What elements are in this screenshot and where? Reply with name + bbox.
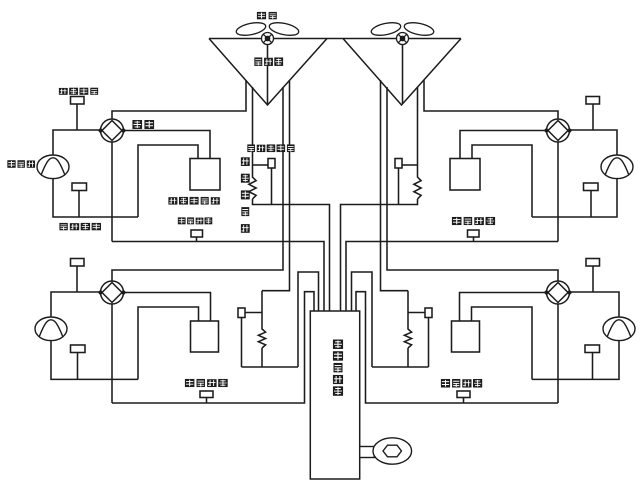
label: condenser label 冷凝器 xyxy=(254,57,283,65)
wire: heater A' to heat exchanger xyxy=(341,199,418,311)
wire: valve A bottom line xyxy=(111,142,113,242)
auxiliary electric heater A (zigzag) xyxy=(249,171,256,199)
wire: LP switch A stub xyxy=(78,191,80,218)
wire: heater B' to outer bridge xyxy=(372,348,429,367)
label: high-pressure-switch label 高压开关 xyxy=(59,88,98,95)
wire: valve A top port to left condenser xyxy=(112,80,246,119)
wire: valve B bottom line xyxy=(111,304,113,403)
wire: outer bridge to heat exchanger xyxy=(298,272,319,367)
label: electronic-expansion-valve label 电子膨胀阀 xyxy=(247,144,294,152)
wire: valve B' top port riser xyxy=(387,87,558,281)
compressor B (compressor: ellipse with inner bell) xyxy=(35,317,67,341)
wire: compressor A discharge to valve A xyxy=(53,130,101,156)
high pressure switch A' xyxy=(586,97,600,105)
wire: expansion valve A link xyxy=(253,164,269,166)
wire: heater B to outer bridge xyxy=(242,348,299,367)
compressor A (compressor: ellipse with inner bell) xyxy=(37,155,69,179)
four-way valve B (4-way reversing valve: circle with inscribed diamond) xyxy=(98,281,125,304)
four-way valve A' (4-way reversing valve: circle with inscribed diamond) xyxy=(544,119,571,142)
fan (left) (axial fan: two blades + hub) xyxy=(235,20,300,44)
wire: outer bridge to heat exchanger (right) xyxy=(352,272,373,367)
electronic expansion valve B' xyxy=(425,308,432,318)
wire: separator A' second port to suction line xyxy=(472,145,532,217)
wire: valve B right port to separator B xyxy=(124,293,211,322)
wire: expansion valve B link xyxy=(245,312,262,314)
fan shaft right xyxy=(402,44,404,104)
wire: circuit A' bottom line to heat exchanger xyxy=(346,242,558,312)
wire: expansion valve A' outlet xyxy=(398,168,400,205)
label: four-way-valve label 阀 xyxy=(132,120,154,129)
wire: LP switch B' stub xyxy=(592,353,594,380)
label: pressure-switch label (bottom-left) 压力开关 xyxy=(185,379,228,387)
wire: compressor A' discharge to valve A' xyxy=(569,130,617,156)
wire: circuit B' condenser liquid line xyxy=(407,291,409,323)
low pressure switch A xyxy=(72,183,87,191)
condenser top line xyxy=(209,38,461,40)
compressor A' (compressor: ellipse with inner bell) xyxy=(601,155,633,179)
label: pressure-switch label (top-right) 压力开关 xyxy=(452,217,495,225)
gas-liquid separator B xyxy=(191,321,219,352)
wire: separator B' second port to suction line xyxy=(472,307,533,379)
pressure switch B xyxy=(200,391,213,398)
wire: valve A' left port to separator A' xyxy=(460,131,547,159)
gas-liquid separator A xyxy=(190,159,220,191)
auxiliary electric heater B (zigzag) xyxy=(258,323,265,348)
auxiliary electric heater B' (zigzag) xyxy=(404,323,411,348)
wire: right condenser to circuit B' heater (long drop) xyxy=(381,80,409,291)
wire: valve A' bottom line xyxy=(557,142,559,242)
water pump (ellipse with hexagon) xyxy=(373,438,412,464)
wire: suction line B (compressor bottom) xyxy=(51,340,138,379)
water pump duct stub xyxy=(360,447,375,458)
wire: HP switch A stub xyxy=(76,104,78,130)
wire: suction line A' xyxy=(532,178,617,217)
water-side plate heat exchanger xyxy=(310,311,359,479)
four-way valve A (4-way reversing valve: circle with inscribed diamond) xyxy=(98,119,125,142)
wire: circuit B' bottom line to heat exchanger (inner bridge) xyxy=(356,292,558,403)
label: pressure-switch label (bottom-right) 压力开关 xyxy=(441,379,482,388)
gas-liquid separator B' xyxy=(452,321,480,352)
wire: expansion valve B outlet xyxy=(241,318,243,368)
wire: circuit A bottom line to heat exchanger xyxy=(112,242,324,312)
wire: pressure switch B stub xyxy=(206,398,208,404)
wire: valve B' bottom line xyxy=(557,304,559,403)
wire: pressure switch B' stub xyxy=(463,398,465,404)
wire: suction line B' xyxy=(532,340,619,379)
wire: expansion valve B' outlet xyxy=(428,318,430,368)
low pressure switch B xyxy=(71,345,86,353)
wire: pressure switch A' stub xyxy=(473,237,475,242)
pressure switch B1 xyxy=(71,259,85,267)
label: low-pressure-switch label 低压开关 xyxy=(59,223,101,230)
wire: condenser A' liquid line xyxy=(417,87,419,171)
wire: expansion valve A' link xyxy=(402,164,418,166)
wire: separator B second port to suction line xyxy=(138,307,199,379)
wire: LP switch A' stub xyxy=(590,191,592,218)
label: fan label 风机 xyxy=(257,12,277,19)
low pressure switch A' xyxy=(584,183,599,191)
wire: valve A' top port to right condenser xyxy=(424,80,558,119)
wire: LP switch B stub xyxy=(77,353,79,380)
wire: condenser A liquid line xyxy=(252,87,254,171)
four-way valve B' (4-way reversing valve: circle with inscribed diamond) xyxy=(544,281,571,304)
pressure switch A xyxy=(191,230,203,237)
wire: heater A to heat exchanger xyxy=(253,199,330,311)
compressor B' (compressor: ellipse with inner bell) xyxy=(603,317,635,341)
label: aux-heater vertical label 辅助电加热 xyxy=(241,157,250,233)
wire: expansion valve B' link xyxy=(408,312,425,314)
gas-liquid separator A' xyxy=(450,159,480,191)
wire: switch B1 stub xyxy=(76,266,78,292)
fan (right) (axial fan: two blades + hub) xyxy=(370,20,435,44)
condenser (left triangle) xyxy=(209,39,327,106)
label: compressor label 压缩机 xyxy=(7,160,35,168)
wire: HP switch A' stub xyxy=(592,104,594,130)
wire: expansion valve A outlet xyxy=(271,168,273,205)
auxiliary electric heater A' (zigzag) xyxy=(414,171,421,199)
wire: compressor B' discharge to valve B' xyxy=(569,292,619,318)
fan shaft left xyxy=(267,44,269,104)
wire: circuit B bottom line to heat exchanger (inner bridge) xyxy=(112,292,314,403)
wire: switch B1' stub xyxy=(592,266,594,292)
label: separator label 气液分离器 xyxy=(168,197,219,205)
wire: valve B' left port to separator B' xyxy=(460,293,547,322)
wire: left condenser to circuit B heater (long drop) xyxy=(262,80,290,291)
wire: valve B top port riser xyxy=(112,87,283,281)
electronic expansion valve A xyxy=(268,159,275,169)
low pressure switch B' xyxy=(585,345,600,353)
pressure switch A' xyxy=(468,230,480,237)
wire: pressure switch A stub xyxy=(196,237,198,242)
high pressure switch A xyxy=(71,97,85,105)
wire: suction line A (compressor bottom) xyxy=(53,178,138,217)
electronic expansion valve A' xyxy=(395,159,402,169)
wire: valve A right port to separator A xyxy=(124,131,211,159)
label: pressure-switch label (top-left) 压力开关 xyxy=(178,217,212,224)
label: heat-exchanger vertical label 水侧换热器 xyxy=(333,340,343,396)
electronic expansion valve B xyxy=(238,308,245,318)
condenser (right triangle) xyxy=(343,39,461,106)
wire: compressor B discharge to valve B xyxy=(51,292,101,318)
wire: separator A second port to suction line xyxy=(138,145,198,217)
pressure switch B' xyxy=(457,391,470,398)
pressure switch B1' xyxy=(586,259,600,267)
wire: circuit B condenser liquid line xyxy=(261,291,263,323)
